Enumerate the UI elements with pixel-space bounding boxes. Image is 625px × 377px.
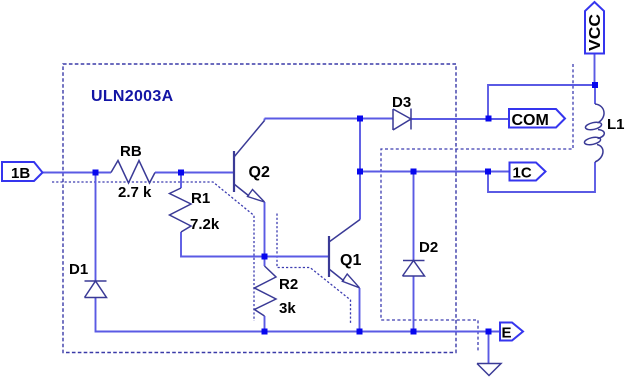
resistor R1 zigzag	[170, 188, 192, 232]
node: R2 bottom rail	[262, 329, 268, 335]
wire: Q1 emitter down to rail	[359, 288, 361, 332]
svg-text:D1: D1	[69, 261, 88, 278]
transistor Q1 emitter diagonal	[329, 269, 344, 281]
wire: 1B input to RB	[42, 172, 111, 174]
node: 1C wire down	[485, 169, 491, 175]
svg-text:7.2k: 7.2k	[190, 216, 220, 233]
svg-text:D3: D3	[392, 94, 411, 111]
wire: node1 down to D1	[95, 173, 97, 282]
transistor Q1 collector diagonal	[329, 220, 360, 243]
svg-text:VCC: VCC	[587, 14, 604, 51]
wire: R2 leads	[264, 257, 266, 332]
svg-text:COM: COM	[512, 112, 549, 129]
node: VCC / L1	[592, 82, 598, 88]
Q2 emitter arrow	[248, 190, 265, 203]
svg-text:Q1: Q1	[340, 252, 361, 269]
connector COM	[509, 109, 565, 128]
wire: E node down to ground	[488, 332, 490, 364]
svg-text:Q2: Q2	[249, 164, 270, 181]
wire: COM node up and over to VCC node	[488, 85, 595, 119]
node: Q1 emitter rail	[357, 329, 363, 335]
node: D2 bottom rail	[411, 329, 417, 335]
node: input/RB	[93, 170, 99, 176]
ULN2003A package dashed boundary box	[63, 64, 456, 353]
ground symbol	[477, 364, 501, 376]
transistor Q1 base bar	[328, 236, 330, 277]
wire: 1C rail	[360, 171, 510, 173]
svg-text:1C: 1C	[513, 165, 532, 182]
connector E	[500, 323, 523, 341]
component symbols (navy)	[85, 104, 605, 376]
svg-text:RB: RB	[120, 143, 142, 160]
inductor L1	[595, 104, 604, 123]
wire: VCC node to L1 top	[594, 85, 596, 104]
svg-text:R1: R1	[191, 190, 210, 207]
base-current dotted path	[52, 182, 351, 323]
svg-text:3k: 3k	[279, 300, 296, 317]
wire: D1 to bottom rail	[96, 298, 266, 332]
svg-text:R2: R2	[279, 276, 298, 293]
diode D3	[393, 109, 411, 131]
node: Q1 collector / 1C rail	[357, 169, 363, 175]
svg-text:L1: L1	[607, 116, 625, 133]
junction node squares	[93, 82, 599, 335]
connector 1B	[2, 162, 43, 181]
svg-text:D2: D2	[419, 239, 438, 256]
diode D1	[85, 281, 107, 298]
wire: D2 bottom to rail	[413, 276, 415, 332]
wire: Q2 emitter down to node	[264, 202, 266, 257]
node: collector rail / Q1 collector	[357, 116, 363, 122]
resistor RB zigzag	[111, 161, 155, 184]
wire: node2 down to R1	[180, 173, 182, 189]
connector VCC	[585, 2, 604, 54]
transistor Q2 base bar	[233, 151, 235, 192]
resistor R2 zigzag	[255, 266, 277, 316]
wires (bright blue interconnect)	[42, 54, 595, 364]
wire: L1 bottom around to 1C	[488, 162, 595, 192]
connector 1C	[510, 163, 546, 181]
wire: Q1 collector up	[359, 119, 361, 220]
node: Q2 emitter/R2/Q1 base	[262, 254, 268, 260]
wire: VCC connector to node	[594, 54, 596, 86]
wire: D2 top lead	[413, 172, 415, 261]
transistor Q2 emitter diagonal	[234, 184, 249, 196]
wire: D3 cathode to COM	[411, 118, 509, 120]
bottom emitter rail	[265, 331, 500, 333]
node: E / ground	[486, 329, 492, 335]
wire: Q2 collector up	[264, 119, 266, 121]
svg-text:1B: 1B	[11, 165, 30, 182]
svg-text:2.7 k: 2.7 k	[118, 184, 152, 201]
node: RB/R1/Q2	[178, 170, 184, 176]
wire: RB to Q2 base	[155, 172, 233, 174]
wire: R1 bottom to Q1 base	[181, 232, 328, 257]
node: COM wire	[486, 116, 492, 122]
transistor Q2 collector diagonal	[234, 121, 265, 158]
Q1 emitter arrow	[342, 274, 359, 288]
svg-text:ULN2003A: ULN2003A	[91, 88, 174, 105]
wire: collector rail top	[265, 118, 394, 120]
svg-text:E: E	[502, 325, 512, 342]
diode D2	[403, 261, 425, 277]
load-current dashed path (VCC/L1/1C loop)	[381, 64, 573, 352]
node: D2 top	[411, 169, 417, 175]
